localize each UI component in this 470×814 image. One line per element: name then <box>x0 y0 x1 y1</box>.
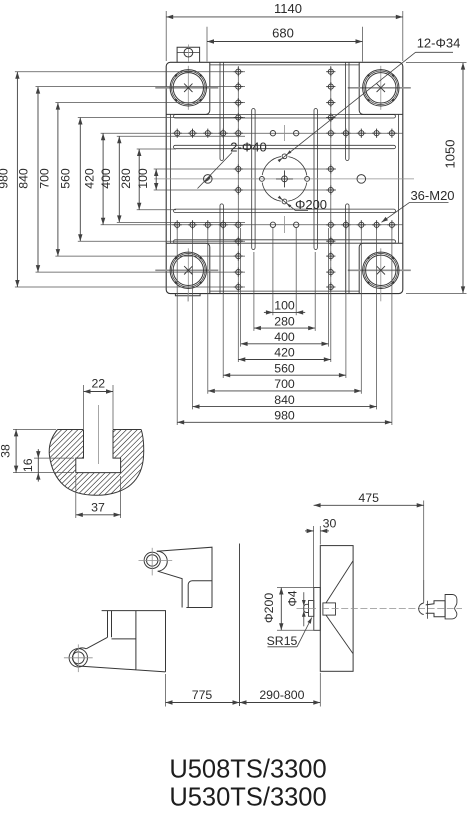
svg-text:840: 840 <box>17 168 31 189</box>
M20 hole columns <box>237 66 239 362</box>
svg-text:420: 420 <box>82 168 96 189</box>
dim 38 <box>13 428 56 430</box>
svg-text:680: 680 <box>272 25 294 40</box>
svg-text:700: 700 <box>274 377 295 391</box>
lower bracket <box>78 611 165 672</box>
svg-text:700: 700 <box>38 168 52 189</box>
row extension lines <box>15 71 245 73</box>
svg-text:12-Φ34: 12-Φ34 <box>417 36 461 51</box>
svg-text:30: 30 <box>323 517 337 531</box>
t-slot cut <box>76 430 121 473</box>
t-slot centerline <box>97 405 99 464</box>
svg-text:SR15: SR15 <box>267 634 298 648</box>
center pattern centerlines <box>284 125 286 141</box>
dim 1140 top <box>165 11 167 61</box>
side view centerline <box>297 607 317 609</box>
svg-text:U530TS/3300: U530TS/3300 <box>169 784 326 812</box>
svg-text:Φ200: Φ200 <box>295 197 327 212</box>
svg-text:280: 280 <box>119 168 133 189</box>
dim phi200 side <box>277 587 314 589</box>
svg-text:475: 475 <box>358 491 379 505</box>
svg-text:775: 775 <box>192 688 213 702</box>
sprue cone <box>323 603 336 615</box>
corner bosses <box>166 62 210 114</box>
nozzle <box>309 601 314 617</box>
svg-text:100: 100 <box>136 168 150 189</box>
dim 680 top <box>206 27 208 62</box>
svg-text:400: 400 <box>274 330 295 344</box>
M20 hole rows <box>173 129 182 138</box>
bottom dim stack <box>176 228 178 425</box>
svg-text:Φ200: Φ200 <box>262 593 276 623</box>
svg-text:1140: 1140 <box>274 1 302 16</box>
platen top view outline <box>166 62 403 293</box>
svg-text:560: 560 <box>59 168 73 189</box>
svg-text:U508TS/3300: U508TS/3300 <box>169 756 326 784</box>
svg-text:2-Φ40: 2-Φ40 <box>230 140 266 155</box>
tie-bar hole BR <box>348 269 411 271</box>
vertical T-slots <box>220 62 223 160</box>
moving platen face line <box>239 544 241 707</box>
locating ring <box>314 588 321 631</box>
phi200 bolt circle <box>262 156 307 201</box>
dim 30 <box>313 526 315 608</box>
svg-text:37: 37 <box>91 501 105 515</box>
t-slot section blob <box>49 430 144 496</box>
top mounting tab <box>177 47 200 62</box>
injection nozzle widget <box>423 580 425 603</box>
bottom tab <box>175 294 200 296</box>
tie-bar hole TL <box>155 87 218 89</box>
plate horizontal centerline <box>154 178 414 180</box>
upper bracket <box>157 547 212 607</box>
dim phi4 <box>303 592 305 626</box>
stationary platen slab <box>320 546 353 672</box>
left dim stack <box>16 72 18 287</box>
svg-text:560: 560 <box>274 361 295 375</box>
phi34 corner holes <box>270 131 275 136</box>
svg-text:280: 280 <box>274 314 295 328</box>
svg-text:38: 38 <box>0 444 13 458</box>
plate inner edge lines <box>170 114 172 243</box>
svg-text:400: 400 <box>99 168 113 189</box>
bottom dims 775 / 290-800 <box>165 674 167 707</box>
dim 16 <box>34 457 74 459</box>
phi34 holes on circle <box>282 154 287 159</box>
svg-text:420: 420 <box>274 346 295 360</box>
horizontal T-slots <box>174 115 396 118</box>
dim 22 <box>83 385 85 429</box>
svg-text:840: 840 <box>274 393 295 407</box>
svg-text:290-800: 290-800 <box>259 688 304 702</box>
tie-bar hole TR <box>348 87 411 89</box>
dim 1050 right <box>406 62 467 64</box>
tie-bar hole BL <box>155 269 218 271</box>
dim 37 <box>75 476 77 518</box>
2-phi40 holes <box>204 175 213 184</box>
dim 475 <box>423 501 425 602</box>
svg-text:36-M20: 36-M20 <box>410 188 454 203</box>
svg-text:16: 16 <box>21 458 35 472</box>
svg-text:980: 980 <box>0 168 10 189</box>
svg-text:1050: 1050 <box>443 140 458 169</box>
svg-text:Φ4: Φ4 <box>285 590 299 606</box>
center hole <box>276 170 293 187</box>
svg-text:22: 22 <box>91 377 105 391</box>
svg-text:100: 100 <box>274 299 295 313</box>
svg-text:980: 980 <box>274 409 295 423</box>
